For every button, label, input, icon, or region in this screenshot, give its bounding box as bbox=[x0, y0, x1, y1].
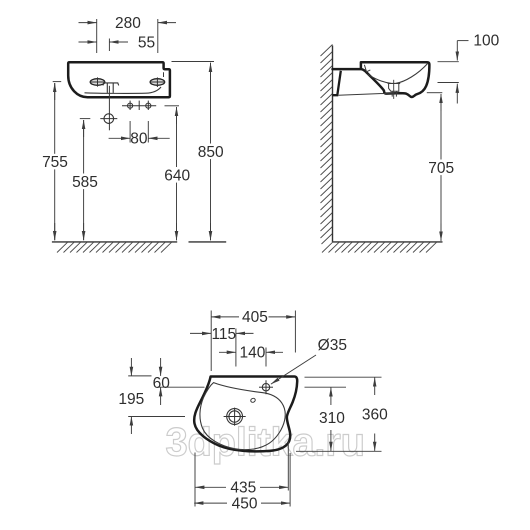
svg-text:60: 60 bbox=[153, 375, 171, 392]
dim 310 bbox=[305, 387, 347, 451]
dim 755 bbox=[40, 82, 70, 241]
dim 280 bbox=[79, 15, 177, 53]
dim 435 bbox=[195, 442, 288, 507]
dim 55 bbox=[79, 34, 156, 51]
side view thin bottom line bbox=[338, 93, 398, 95]
svg-text:450: 450 bbox=[232, 495, 258, 512]
ground hatch side view bbox=[322, 242, 437, 252]
svg-text:310: 310 bbox=[319, 410, 345, 427]
ground line left view bbox=[52, 241, 226, 243]
dim 140 bbox=[219, 345, 283, 367]
faucet / fixing hole centerline bbox=[108, 86, 110, 131]
side view slope tick bbox=[364, 65, 370, 72]
svg-text:Ø35: Ø35 bbox=[318, 337, 347, 354]
side view bracket slant edge bbox=[333, 71, 341, 95]
front right tap hole bbox=[150, 77, 165, 87]
dim 405 bbox=[211, 309, 295, 371]
dim 585 bbox=[70, 119, 100, 241]
watermark 3dplitka.ru bbox=[166, 421, 366, 465]
svg-text:585: 585 bbox=[72, 174, 98, 191]
svg-text:850: 850 bbox=[198, 144, 224, 161]
faucet symbol bbox=[103, 83, 119, 93]
side view drain bbox=[388, 80, 401, 99]
svg-text:195: 195 bbox=[118, 391, 144, 408]
side view bowl interior bbox=[368, 63, 428, 83]
fixing hole circle-cross bbox=[100, 114, 117, 124]
svg-text:360: 360 bbox=[362, 407, 388, 424]
plan outline bbox=[194, 377, 297, 452]
svg-text:280: 280 bbox=[115, 15, 141, 32]
dim 80 bbox=[109, 121, 170, 148]
dim 640 bbox=[162, 106, 192, 240]
svg-text:705: 705 bbox=[428, 160, 454, 177]
plan tap hole circle-cross bbox=[259, 380, 273, 394]
svg-text:100: 100 bbox=[473, 33, 499, 50]
svg-text:140: 140 bbox=[239, 345, 265, 362]
dim 850 left view bbox=[172, 62, 227, 241]
overflow holes row bbox=[122, 101, 156, 110]
dim 705 bbox=[426, 93, 456, 241]
plan drain circle-cross bbox=[224, 408, 246, 426]
svg-text:55: 55 bbox=[138, 34, 155, 51]
ground hatch left view bbox=[57, 242, 172, 252]
dim 360 bbox=[296, 377, 388, 451]
dim 450 bbox=[194, 453, 290, 512]
plan inner bowl bbox=[200, 383, 285, 450]
wall line bbox=[332, 46, 334, 242]
svg-text:80: 80 bbox=[130, 131, 148, 148]
front left tap hole bbox=[90, 77, 106, 86]
dim 100 bbox=[438, 33, 500, 104]
dim 60 bbox=[128, 358, 204, 405]
svg-text:755: 755 bbox=[42, 154, 68, 171]
dim 195 bbox=[118, 358, 185, 434]
ground line side view bbox=[333, 241, 443, 243]
wall hatch bbox=[321, 45, 333, 245]
svg-text:435: 435 bbox=[230, 480, 256, 497]
front view sink outline bbox=[68, 62, 170, 97]
svg-text:405: 405 bbox=[242, 309, 268, 326]
leader and label Ø35 bbox=[271, 337, 347, 384]
dim 115 bbox=[190, 326, 254, 367]
svg-text:640: 640 bbox=[164, 167, 190, 184]
front view step inner line bbox=[163, 72, 165, 77]
plan overflow hole bbox=[250, 398, 256, 403]
front view inner basin curve bbox=[85, 87, 162, 93]
side view sink outline bbox=[333, 62, 430, 97]
svg-text:115: 115 bbox=[211, 326, 236, 343]
